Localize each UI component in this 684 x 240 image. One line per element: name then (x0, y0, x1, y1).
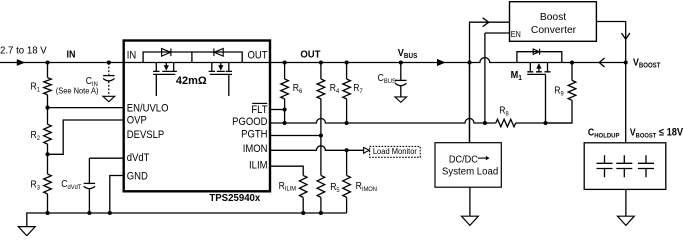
resistor R5 (320, 136, 322, 214)
junction R6 top (283, 60, 287, 64)
resistor R8 (496, 119, 516, 127)
svg-text:OUT: OUT (247, 50, 267, 62)
wire boost output (596, 22, 625, 143)
ground holdup (618, 216, 635, 225)
wire OUT to VBOOST (270, 58, 626, 63)
svg-text:System Load: System Load (442, 166, 498, 177)
junction CBUS top (399, 60, 403, 64)
capacitor CdVdT (88, 158, 90, 183)
svg-text:DC/DC: DC/DC (449, 154, 478, 166)
transistor M1 (517, 49, 562, 123)
wire IMON row (270, 146, 363, 151)
junction M1 gate (543, 121, 547, 125)
VBOOST flow chevron (599, 58, 604, 67)
diode D-internal-2 (214, 49, 223, 57)
svg-text:ILIM: ILIM (249, 160, 267, 172)
junction boost/load tap (467, 60, 471, 64)
block Boost Converter (510, 2, 597, 42)
svg-text:IMON: IMON (243, 143, 268, 155)
VBUS flow arrow (437, 59, 446, 66)
svg-text:TPS25940x: TPS25940x (209, 193, 260, 204)
svg-text:IN: IN (67, 49, 76, 61)
junction R7 bottom (345, 121, 349, 125)
resistor R9 (546, 63, 573, 124)
junction CIN top (107, 60, 111, 64)
resistor R2 (47, 108, 49, 155)
junction FLT/R6 (283, 107, 287, 111)
junction R5 bottom (319, 211, 323, 215)
wire boost EN (485, 33, 510, 123)
svg-text:GND: GND (127, 171, 148, 183)
junction R1/R2 EN node (45, 106, 49, 110)
boost input chevron (483, 18, 489, 27)
resistor R1 (47, 63, 49, 108)
junction RIMON top (345, 148, 349, 152)
block DC/DC System Load (435, 143, 501, 188)
input flow arrow (17, 59, 25, 66)
junction R1 top (45, 60, 49, 64)
wire boost input riser (470, 22, 510, 143)
capacitor holdup 2 (616, 155, 632, 177)
ground CBUS (395, 97, 407, 102)
diode D-internal-1 (162, 49, 171, 57)
junction RILIM bottom (301, 211, 305, 215)
wire holdup ground stem (625, 189, 627, 216)
capacitor holdup 3 (638, 155, 654, 177)
ground main (18, 227, 35, 236)
wire dVdT (89, 157, 123, 159)
wire OVP (48, 120, 124, 154)
capacitor CIN (optional, dashed leads) (108, 63, 110, 75)
junction PGTH/R4/R5 (319, 133, 323, 137)
junction PGOOD/R6 (283, 121, 287, 125)
resistor R3 (47, 154, 49, 213)
wire DC/DC feed (469, 63, 471, 143)
wire PGOOD row (270, 119, 572, 124)
svg-text:EN: EN (511, 30, 521, 39)
svg-text:IN: IN (127, 50, 136, 62)
resistor R6 (284, 63, 286, 110)
junction CdVdT bottom (87, 211, 91, 215)
svg-text:OUT: OUT (300, 49, 320, 60)
wire GND pin (110, 176, 124, 214)
transistor Q-internal-1 (153, 63, 177, 97)
wire internal channel IN-OUT (124, 62, 270, 64)
wire internal diode bus (143, 52, 242, 63)
boost output chevron (622, 33, 630, 39)
block Load Monitor (370, 146, 421, 157)
svg-text:PGOOD: PGOOD (232, 116, 267, 128)
svg-text:DEVSLP: DEVSLP (127, 129, 165, 141)
svg-text:Boost: Boost (540, 12, 566, 23)
resistor RILIM (302, 198, 304, 214)
svg-text:PGTH: PGTH (241, 129, 267, 141)
junction EN riser (483, 121, 487, 125)
wire FLT-PGOOD tie (284, 110, 286, 124)
junction R7 top (345, 60, 349, 64)
svg-text:42mΩ: 42mΩ (176, 75, 207, 87)
svg-text:(See Note A): (See Note A) (56, 86, 99, 95)
svg-text:FLT: FLT (251, 105, 267, 117)
wire PGTH row (270, 135, 321, 137)
op IC U1 TPS25940x box (124, 41, 270, 192)
svg-text:EN/UVLO: EN/UVLO (127, 103, 169, 115)
svg-text:2.7 to 18 V: 2.7 to 18 V (0, 45, 47, 56)
svg-text:dVdT: dVdT (127, 153, 150, 165)
ground DC/DC (462, 216, 479, 225)
junction R4 top (319, 60, 323, 64)
junction VBOOST node (624, 60, 628, 64)
capacitor CBUS (400, 63, 402, 81)
wire ILIM row (270, 166, 303, 175)
junction R2/R3 OVP node (45, 152, 49, 156)
ground rail (27, 213, 347, 227)
capacitor holdup 1 (597, 155, 613, 177)
junction GND bottom (108, 211, 112, 215)
transistor Q-internal-2 (209, 63, 232, 97)
resistor R7 (346, 63, 348, 124)
resistor RIMON (346, 150, 348, 213)
svg-text:Load Monitor: Load Monitor (373, 147, 418, 156)
junction R9 top (570, 60, 574, 64)
svg-text:OVP: OVP (127, 115, 147, 127)
svg-text:Converter: Converter (531, 25, 577, 36)
node VIN input wire (0, 62, 124, 64)
junction R3 bottom (45, 211, 49, 215)
wire FLT (270, 109, 285, 111)
signal arrow to load monitor (364, 147, 370, 153)
wire DC/DC ground stem (469, 187, 471, 216)
ground CIN (103, 96, 115, 101)
wire EN/UVLO (48, 107, 124, 109)
block CHOLDUP bank (584, 143, 666, 190)
resistor R4 (320, 63, 322, 136)
